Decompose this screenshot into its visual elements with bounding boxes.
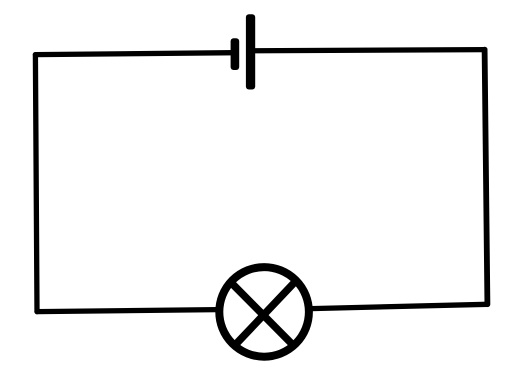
wire right side (top-right corner down to bottom-right corner) bbox=[485, 50, 488, 305]
lamp L1: X stroke (top-left to bottom-right) bbox=[231, 283, 293, 345]
wire left side (top-left corner down to bottom-left corner) bbox=[35, 55, 37, 312]
lamp L1: X stroke (top-right to bottom-left) bbox=[235, 281, 296, 345]
wire top-left segment (from top-left corner to battery negative plate) bbox=[35, 53, 234, 55]
wire bottom-right segment (from bottom-right corner to lamp) bbox=[311, 304, 487, 308]
wire top-right segment (from battery positive plate to top-right corner) bbox=[251, 50, 485, 51]
battery cell B1: positive plate (tall bar) bbox=[246, 14, 255, 89]
wire bottom-left segment (from bottom-left corner to lamp) bbox=[37, 310, 217, 312]
lamp L1: circle outline bbox=[219, 267, 309, 357]
battery cell B1: negative plate (short bar) bbox=[231, 38, 240, 70]
